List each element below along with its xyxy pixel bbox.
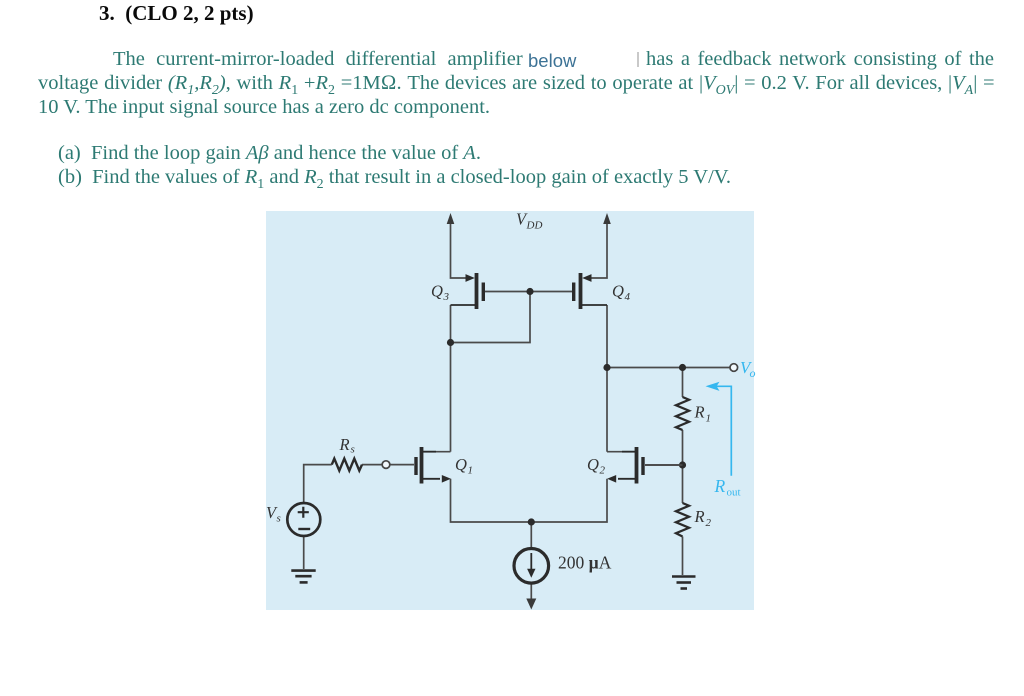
item (a) <box>58 142 481 165</box>
svg-text:2: 2 <box>600 465 606 477</box>
heading <box>99 1 254 26</box>
svg-text:R: R <box>694 507 705 526</box>
svg-text:R: R <box>694 403 705 422</box>
svg-text:Q: Q <box>587 455 599 474</box>
wire Q2 drain lead <box>607 451 635 453</box>
wire node A to Q1 drain <box>450 343 452 452</box>
wire feedback node to R2 <box>682 465 684 503</box>
svg-text:o: o <box>750 366 756 380</box>
label R1 <box>694 403 712 425</box>
paragraph line 3 <box>38 96 490 119</box>
wire output node to Vo terminal <box>607 367 730 369</box>
svg-text:R: R <box>714 476 726 496</box>
label Q1 <box>455 455 473 477</box>
annotation Rout arrow <box>714 386 731 476</box>
svg-text:out: out <box>727 487 741 499</box>
junction gate node <box>526 288 533 295</box>
wire R1 to feedback node <box>682 430 684 465</box>
source Vs voltage source <box>287 503 320 536</box>
wire Vs to Rs <box>304 465 332 503</box>
svg-text:3: 3 <box>443 291 450 303</box>
terminal Q1 gate input open circle <box>382 461 390 469</box>
wire Rs to input terminal <box>362 464 382 466</box>
wire current source to negative supply <box>530 583 532 602</box>
wire mirror feedback node A to gate node <box>451 292 531 343</box>
negative supply arrow <box>526 599 536 610</box>
transistor Q3 (PMOS) <box>451 273 484 309</box>
wire output node to Q2 drain <box>606 368 608 452</box>
wire output node to R1 <box>682 368 684 398</box>
circuit figure <box>266 211 786 610</box>
junction output node <box>603 364 610 371</box>
wire Q4 source to VDD <box>591 222 607 278</box>
ground right <box>672 577 696 589</box>
svg-text:4: 4 <box>625 291 631 303</box>
svg-text:200 µA: 200 µA <box>558 553 612 573</box>
wire Q3 gate to Q4 gate <box>485 291 573 293</box>
junction R1 top tap <box>679 364 686 371</box>
item (b) <box>58 166 731 189</box>
wire R2 to ground <box>682 537 684 576</box>
wire Q3 source to VDD <box>451 222 467 278</box>
junction Q3 drain node A <box>447 339 454 346</box>
transistor Q1 (NMOS) <box>416 447 451 484</box>
label Vs <box>266 503 281 525</box>
ground left <box>291 571 315 583</box>
wire feedback node to Q2 gate <box>645 464 683 466</box>
wire Q3 drain down to node A <box>450 305 452 343</box>
svg-text:1: 1 <box>468 465 474 477</box>
VDD supply arrow right <box>603 213 611 224</box>
wire Q1 drain lead <box>423 451 451 453</box>
label Rout <box>714 476 741 499</box>
resistor R2 <box>676 503 689 537</box>
wire Vs to ground <box>303 536 305 569</box>
paragraph line 1 <box>113 48 523 71</box>
wire Q1 source to tail node <box>451 479 532 522</box>
VDD supply arrow left <box>447 213 455 224</box>
paragraph line 2 <box>38 72 995 95</box>
svg-text:Q: Q <box>455 455 467 474</box>
current source I 200uA <box>514 549 549 584</box>
net label Vo <box>740 358 756 380</box>
label Q4 <box>612 282 631 304</box>
svg-text:1: 1 <box>706 413 712 425</box>
wire input terminal to Q1 gate <box>390 464 414 466</box>
svg-text:R: R <box>339 435 350 454</box>
label Q3 <box>431 282 450 304</box>
wire tail node to current source <box>530 522 532 549</box>
svg-text:s: s <box>351 444 355 456</box>
transistor Q2 (NMOS) <box>607 447 643 484</box>
junction feedback node <box>679 461 686 468</box>
label Q2 <box>587 455 606 477</box>
wire Q2 gate lead <box>645 464 683 466</box>
transistor Q4 (PMOS) <box>574 273 607 309</box>
wire Q4 drain to output node <box>606 305 608 368</box>
resistor R1 <box>676 397 689 430</box>
terminal Vo open circle <box>730 364 738 372</box>
wire Q2 source to tail node <box>531 479 607 522</box>
svg-text:DD: DD <box>526 220 543 232</box>
junction tail node <box>528 518 535 525</box>
svg-text:s: s <box>277 513 281 525</box>
resistor Rs <box>332 459 362 471</box>
label Rs <box>339 435 355 456</box>
svg-text:2: 2 <box>706 517 712 529</box>
svg-text:Q: Q <box>431 282 443 301</box>
label R2 <box>694 507 712 529</box>
svg-text:Q: Q <box>612 282 624 301</box>
